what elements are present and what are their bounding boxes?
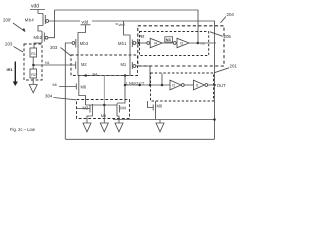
dashed box 204: [138, 26, 224, 66]
transistor Mb3: [72, 25, 89, 49]
wire I2 to I1: [185, 84, 194, 86]
label 303 with pointer: [50, 45, 71, 56]
svg-text:M2: M2: [81, 62, 87, 67]
transistor M4: [117, 104, 127, 114]
ground (center of 304): [100, 123, 108, 132]
current arrow IR1: [7, 62, 18, 87]
wire node N1 to M2 gate: [35, 64, 76, 66]
junction dot OUT: [213, 84, 216, 87]
junction dot mirror: [103, 104, 106, 107]
svg-text:Mb4: Mb4: [25, 18, 35, 23]
label M5: [101, 113, 110, 118]
transistor Mb1: [118, 38, 138, 49]
node N1 junction dot: [32, 64, 35, 67]
wire M3 source to ground: [87, 114, 92, 124]
svg-text:OUT: OUT: [217, 83, 226, 88]
wire mirror node to ground: [103, 105, 105, 123]
node vdd (top-left power): [30, 4, 45, 14]
wire rail down to mirror (grey): [103, 76, 105, 106]
svg-text:204: 204: [227, 12, 235, 17]
transistor M6: [76, 83, 87, 91]
transistor M2: [76, 61, 88, 70]
wire M6 source down to mirror: [79, 90, 86, 105]
wire M1 bottom to rail: [129, 70, 131, 76]
resistor R2: [30, 69, 37, 78]
junction dot lower wire: [138, 84, 141, 87]
svg-text:Mb2: Mb2: [34, 35, 43, 40]
svg-text:vdd: vdd: [82, 20, 89, 25]
svg-text:M1: M1: [121, 62, 127, 67]
wire I1 to OUT: [208, 84, 215, 86]
junction dot on rail: [85, 74, 88, 77]
label 205 with pointer: [210, 32, 231, 39]
label 304 with pointer: [45, 93, 76, 100]
wire: Mb4 gate line (vb2 net) to right: [49, 20, 215, 22]
svg-text:N1: N1: [45, 61, 50, 65]
wire M4 gate feedback line: [113, 119, 215, 121]
wire M1 top to Mb1 drain: [129, 49, 131, 62]
dashed box 203: [24, 44, 42, 80]
svg-text:303: 303: [50, 45, 58, 50]
wire vb2 feedback vertical: [214, 21, 216, 139]
wire tail tap down to lower wire: [117, 76, 125, 104]
transistor Mb4: [25, 14, 49, 32]
svg-text:N5: N5: [201, 42, 205, 46]
wire: Mb2 drain to R1: [34, 43, 42, 48]
wire: Mb3 gate to long feedback vertical: [65, 43, 71, 139]
inverter I1: [194, 80, 208, 90]
ground (under M4): [115, 123, 123, 132]
svg-text:M4: M4: [120, 105, 126, 110]
svg-text:Mb3: Mb3: [80, 41, 89, 46]
junction dot M1 drain: [124, 84, 127, 87]
svg-text:N2: N2: [139, 33, 145, 38]
junction dot feedback: [149, 84, 152, 87]
ground (below R2): [29, 85, 37, 93]
ground (under box 201): [156, 123, 164, 132]
transistor Mb2: [34, 10, 55, 43]
svg-text:M3: M3: [83, 105, 89, 110]
svg-text:I1: I1: [196, 84, 199, 88]
wire stem to ground: [159, 120, 161, 124]
svg-text:M6: M6: [81, 85, 87, 90]
dashed box 303: [71, 55, 138, 76]
wire R2 to ground: [32, 78, 34, 85]
svg-text:304: 304: [45, 93, 53, 98]
common source rail: [78, 75, 130, 77]
wire vb2 line down to Mb1 source: [124, 21, 131, 38]
lower wire to inverter I2: [125, 84, 170, 86]
inverter I4: [147, 38, 162, 47]
svg-text:I2: I2: [172, 84, 175, 88]
wire M4 source to ground: [117, 114, 119, 124]
ground (under M3): [83, 123, 91, 132]
svg-text:I3: I3: [180, 42, 183, 46]
wire I4 to I3: [162, 42, 173, 44]
svg-text:IR1: IR1: [7, 67, 14, 72]
resistor R1: [30, 48, 37, 57]
inverter I2: [170, 80, 184, 90]
node N2: [138, 33, 146, 44]
svg-text:M6: M6: [157, 104, 163, 109]
net label vb2: [116, 22, 126, 27]
label 204 with pointer: [221, 12, 235, 23]
svg-text:M5: M5: [101, 113, 106, 118]
label 200' with arrow: [3, 18, 26, 32]
junction dot right feedback: [213, 118, 216, 121]
junction dot (feedback tap): [197, 42, 200, 45]
svg-text:200′: 200′: [3, 18, 11, 23]
transistor M3: [77, 104, 93, 114]
svg-text:LNBOUT: LNBOUT: [126, 80, 145, 85]
wire I3 output to right: [189, 42, 216, 44]
svg-text:201: 201: [230, 63, 238, 68]
transistor M1: [121, 61, 151, 85]
node vdd2 (power tap): [80, 19, 92, 25]
transistor M6 (below box 201): [148, 101, 163, 120]
wire N2 to inverter I4: [140, 42, 147, 44]
svg-text:66: 66: [53, 83, 57, 87]
svg-text:vdd: vdd: [31, 4, 39, 10]
dashed box 201: [151, 73, 214, 101]
svg-text:I4: I4: [154, 42, 157, 46]
label 201 with pointer: [214, 63, 237, 73]
junction dot rail tail tap: [124, 74, 127, 77]
junction dot with stub: [161, 84, 164, 87]
svg-text:203: 203: [5, 42, 13, 47]
dashed box 304: [77, 100, 130, 119]
wire M6 drain up to rail: [78, 76, 80, 83]
svg-text:Mb1: Mb1: [118, 41, 127, 46]
wire M2 source to rail: [77, 70, 79, 76]
inverter I3: [173, 38, 189, 47]
svg-text:N4: N4: [93, 73, 98, 77]
drain tie wire M3-M4: [86, 104, 118, 106]
wire R1 to R2: [32, 57, 34, 69]
wire bottom feedback loop: [65, 138, 214, 140]
svg-text:R1: R1: [31, 52, 36, 56]
svg-text:Fig. 2c – Low: Fig. 2c – Low: [10, 127, 36, 132]
wire M6 gate: [59, 86, 76, 88]
wire Mb3 drain to M2: [77, 49, 79, 62]
svg-text:N3: N3: [166, 37, 172, 42]
label 203 with pointer: [5, 42, 23, 53]
node N3: [165, 37, 173, 42]
svg-text:vb2: vb2: [119, 22, 126, 27]
dashed box 205: [140, 32, 209, 56]
svg-text:205: 205: [224, 34, 232, 39]
svg-text:R2: R2: [31, 73, 36, 77]
wire stub up from dot: [161, 74, 163, 86]
wire: top feedback line: [55, 10, 199, 43]
